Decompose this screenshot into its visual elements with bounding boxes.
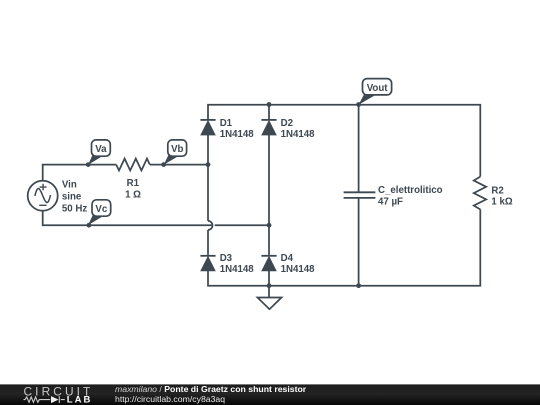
svg-text:R2: R2 bbox=[491, 185, 503, 196]
svg-text:R1: R1 bbox=[127, 178, 140, 189]
svg-text:D3: D3 bbox=[220, 253, 233, 264]
svg-text:Vb: Vb bbox=[171, 144, 183, 155]
svg-text:D1: D1 bbox=[220, 118, 233, 129]
svg-text:47 µF: 47 µF bbox=[378, 197, 403, 208]
svg-text:LAB: LAB bbox=[67, 395, 93, 405]
svg-text:1N4148: 1N4148 bbox=[220, 129, 255, 140]
svg-text:1 kΩ: 1 kΩ bbox=[491, 197, 512, 208]
svg-text:1 Ω: 1 Ω bbox=[125, 190, 141, 201]
svg-text:Vout: Vout bbox=[367, 83, 389, 94]
svg-text:maxmilano / Ponte di Graetz co: maxmilano / Ponte di Graetz con shunt re… bbox=[115, 384, 307, 394]
svg-text:C_elettrolitico: C_elettrolitico bbox=[378, 185, 443, 196]
svg-text:sine: sine bbox=[62, 192, 82, 203]
svg-text:http://circuitlab.com/cy8a3aq: http://circuitlab.com/cy8a3aq bbox=[115, 394, 225, 404]
svg-text:1N4148: 1N4148 bbox=[281, 264, 316, 275]
svg-text:1N4148: 1N4148 bbox=[281, 129, 316, 140]
svg-text:D2: D2 bbox=[281, 118, 293, 129]
svg-text:Va: Va bbox=[95, 144, 107, 155]
svg-text:Vc: Vc bbox=[95, 204, 107, 215]
svg-text:50 Hz: 50 Hz bbox=[62, 204, 87, 215]
svg-text:D4: D4 bbox=[281, 253, 294, 264]
svg-text:Vin: Vin bbox=[62, 180, 77, 191]
svg-text:1N4148: 1N4148 bbox=[220, 264, 255, 275]
